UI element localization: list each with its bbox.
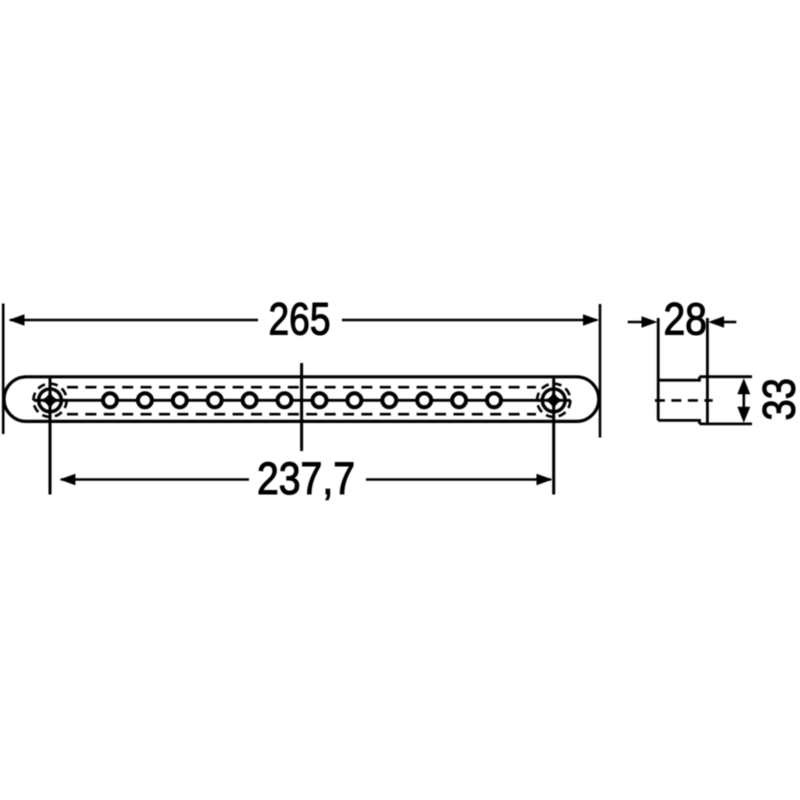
svg-text:33: 33: [753, 378, 800, 421]
lamp body outline (front view stadium): [4, 377, 599, 422]
dimension 28: right extension line through lens: [706, 318, 709, 424]
svg-text:265: 265: [269, 294, 331, 345]
dimension 237,7: line right segment: [366, 478, 551, 481]
dimension 265: right extension line: [599, 304, 602, 438]
side view: housing top edge: [658, 379, 699, 382]
LED circle 2: [138, 393, 152, 407]
LED circle 1: [103, 393, 117, 407]
LED circle 5: [243, 393, 257, 407]
inner lens dashed top line: [67, 386, 536, 389]
svg-text:237,7: 237,7: [257, 453, 355, 504]
side view: housing bottom edge: [658, 419, 701, 422]
LED circle 3: [173, 393, 187, 407]
LED circle 8: [347, 393, 361, 407]
horizontal centerline through LEDs: [34, 399, 571, 402]
dimension 33: bottom arrowhead: [737, 407, 750, 423]
LED circle 9: [382, 393, 396, 407]
dimension 28: left arrow tail: [628, 321, 645, 324]
dimension 265: line left segment: [10, 319, 258, 322]
dimension 237,7: right arrowhead: [537, 474, 553, 486]
dimension 28: right arrow tail: [721, 321, 736, 324]
LED circle 11: [452, 393, 466, 407]
dimension 265: left arrowhead: [9, 314, 25, 326]
vertical centerline of part: [300, 363, 303, 451]
side view: housing left edge + 28 extension line: [657, 318, 660, 420]
side view: lens step top vertical: [698, 377, 701, 382]
side view: lens step bottom vertical: [698, 419, 701, 424]
LED circle 6: [278, 393, 292, 407]
dimension 28: left arrowhead: [642, 316, 658, 328]
right mounting hole: [537, 378, 570, 494]
dimension 237,7: left arrowhead: [59, 474, 75, 486]
LED circle 12: [487, 393, 501, 407]
inner lens dashed bottom line: [67, 413, 536, 416]
LED circle 10: [417, 393, 431, 407]
dimension 265: line right segment: [342, 319, 597, 322]
side view: lens top edge: [700, 375, 753, 378]
svg-text:28: 28: [663, 294, 707, 345]
dimension 265: right arrowhead: [583, 314, 599, 326]
side view: lens bottom edge: [700, 422, 753, 425]
LED circle 4: [208, 393, 222, 407]
side view: dashed centerline: [655, 399, 713, 402]
dimension 33: arrow shaft: [742, 390, 745, 411]
left mounting hole: [33, 378, 66, 494]
dimension 33: top arrowhead: [737, 378, 750, 394]
dimension 28: right arrowhead: [708, 316, 724, 328]
LED circle 7: [313, 393, 327, 407]
dimension 237,7: line left segment: [61, 478, 249, 481]
dimension 265: left extension line: [2, 304, 5, 435]
